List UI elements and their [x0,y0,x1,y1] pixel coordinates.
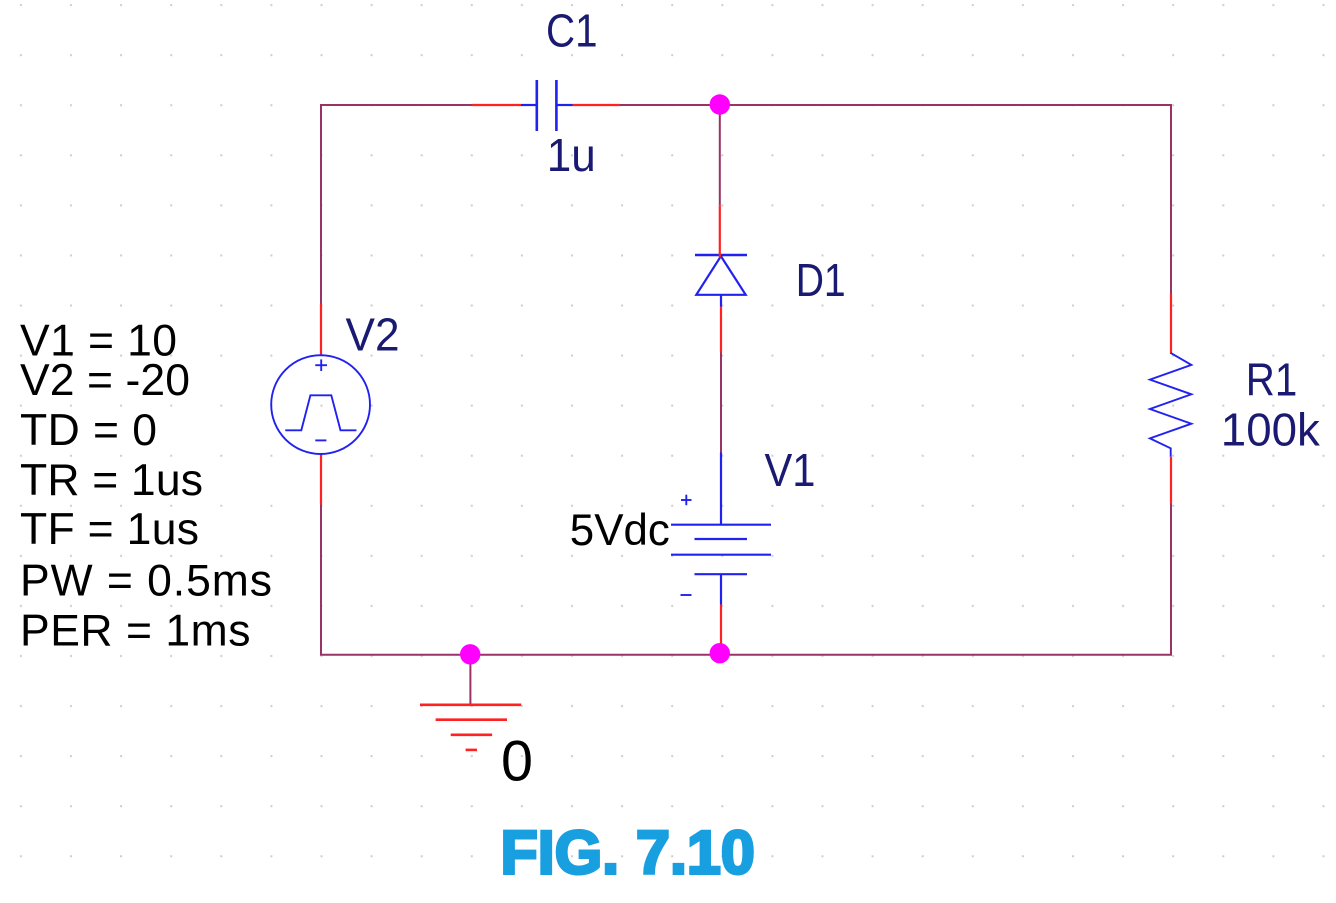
svg-text:100k: 100k [1221,404,1321,456]
wire top-right segment (C1 to node A to R1) [620,105,1171,294]
diode D1 anode pin [720,307,722,353]
svg-text:TD = 0: TD = 0 [20,406,157,455]
V1 minus mark [681,594,692,596]
svg-text:D1: D1 [796,254,846,306]
svg-text:TF = 1us: TF = 1us [20,505,199,554]
diode D1 cathode pin [719,205,721,257]
svg-text:V1: V1 [765,444,816,496]
capacitor C1 pin 2 [573,104,621,106]
pulse source V2 pin + (top) [320,304,322,355]
dc source V1 negative pin [720,605,722,653]
pulse source V2 pin - (bottom) [320,454,322,505]
diode D1 [695,255,747,307]
svg-text:PW = 0.5ms: PW = 0.5ms [20,556,272,605]
svg-text:5Vdc: 5Vdc [570,506,670,555]
svg-text:0: 0 [501,729,533,793]
resistor R1 pin 2 [1170,457,1172,503]
wire D1 anode to V1 positive [720,353,722,453]
svg-text:1u: 1u [547,129,596,181]
svg-text:R1: R1 [1246,353,1298,405]
node B (bottom-left junction dot) [460,644,480,664]
node C (bottom-middle junction dot) [710,643,730,663]
resistor R1 pin 1 [1170,294,1172,355]
wire node A to D1 cathode [719,105,721,206]
svg-text:PER = 1ms: PER = 1ms [20,607,251,656]
capacitor C1 [521,80,573,131]
wire bottom segment (V2 to ground node to V1 node to R1) [321,503,1171,655]
V2 pulse parameter list [20,317,272,656]
ground [420,705,521,750]
wire ground stub [469,654,471,704]
resistor R1 [1150,353,1192,457]
svg-text:V2 = -20: V2 = -20 [20,356,190,405]
wire top-left segment (V2 to C1) [321,105,472,304]
node A (top junction dot) [710,94,730,114]
svg-text:FIG. 7.10: FIG. 7.10 [501,819,755,887]
svg-text:V2: V2 [346,309,400,361]
svg-text:C1: C1 [546,4,598,56]
pulse source V2 [271,355,370,454]
V1 plus mark [681,495,692,506]
dc source V1 (battery) [671,453,771,605]
capacitor C1 pin 1 [472,104,521,106]
svg-text:TR = 1us: TR = 1us [20,456,203,505]
